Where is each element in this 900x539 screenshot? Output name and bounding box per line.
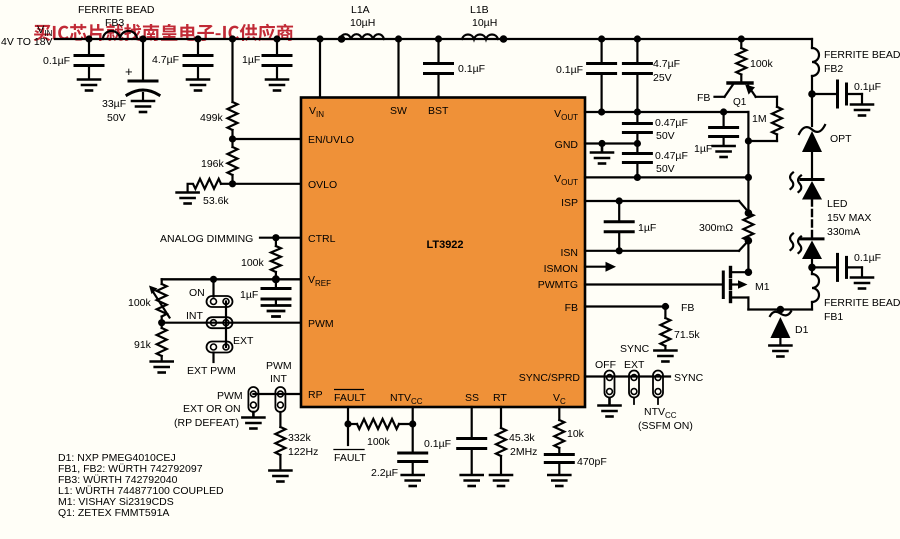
wire VIN pin drop (319, 39, 321, 98)
svg-text:(RP DEFEAT): (RP DEFEAT) (174, 417, 239, 429)
svg-text:4.7µF: 4.7µF (653, 58, 680, 70)
svg-text:71.5k: 71.5k (674, 329, 700, 341)
wire VOUT top line (585, 111, 748, 113)
ground RP-defeat jumper (242, 412, 264, 429)
svg-text:+: + (125, 64, 133, 79)
wire GND line (585, 142, 637, 144)
resistor R 499k (200, 39, 238, 139)
wire FAULT pin drop (347, 407, 349, 445)
svg-text:330mA: 330mA (827, 226, 860, 238)
capacitor 33uF 50V electrolytic (102, 39, 159, 124)
resistor R 53.6k (188, 179, 233, 207)
transistor Q1 PNP (715, 83, 778, 108)
junction dot OVLO (229, 180, 236, 187)
svg-text:10µH: 10µH (350, 17, 375, 29)
wire jumper ON riser (212, 279, 214, 296)
svg-text:FAULT: FAULT (334, 452, 366, 464)
svg-text:91k: 91k (134, 339, 152, 351)
wire ISP line (585, 201, 748, 212)
wire ISN line (585, 241, 748, 251)
svg-text:FERRITE BEAD: FERRITE BEAD (824, 49, 900, 61)
wire NTVCC pin drop (412, 407, 414, 452)
svg-text:196k: 196k (201, 158, 225, 170)
svg-text:4.7µF: 4.7µF (152, 54, 179, 66)
capacitor 4.7uF input (152, 39, 212, 79)
svg-text:LED: LED (827, 198, 848, 210)
svg-text:INT: INT (186, 310, 204, 322)
ground 1uF input (266, 80, 288, 91)
ground input cap (78, 80, 100, 91)
svg-text:0.1µF: 0.1µF (424, 438, 451, 450)
junction dot NTVCC/100k (409, 420, 416, 427)
svg-text:GND: GND (555, 139, 579, 151)
junction dot BST (435, 35, 442, 42)
svg-text:25V: 25V (653, 72, 672, 84)
svg-text:499k: 499k (200, 112, 224, 124)
svg-text:10k: 10k (567, 428, 585, 440)
resistor R 100k FAULT pullup (348, 419, 413, 448)
junction dot SW (395, 35, 402, 42)
svg-text:OFF: OFF (595, 359, 616, 371)
wire PWMTG line (585, 283, 722, 285)
junction dot 499k top (229, 35, 236, 42)
capacitor 0.1uF vout (556, 39, 616, 112)
ground SS (461, 475, 483, 486)
ground 4.7uF (187, 80, 209, 91)
svg-text:SW: SW (390, 105, 407, 117)
junction dot FAULT (344, 420, 351, 427)
jumper JP INT (186, 310, 233, 328)
svg-text:15V MAX: 15V MAX (827, 212, 871, 224)
svg-text:50V: 50V (656, 163, 675, 175)
svg-text:4V TO 18V: 4V TO 18V (1, 36, 53, 48)
svg-text:100k: 100k (241, 257, 265, 269)
ground OFF jumper (599, 398, 621, 417)
ground 0.1uF LED bottom (851, 278, 873, 289)
svg-text:300mΩ: 300mΩ (699, 222, 733, 234)
wire LED dashed (811, 200, 813, 239)
node watermark text (34, 24, 293, 41)
wire ISMON arrow (585, 262, 616, 272)
svg-text:SYNC: SYNC (674, 372, 704, 384)
ground 91k (151, 362, 173, 373)
transistor M1 MOSFET (723, 268, 769, 310)
capacitor 0.47uF 50V upper (623, 112, 688, 144)
svg-text:FB1: FB1 (824, 311, 843, 323)
svg-text:Q1: ZETEX FMMT591A: Q1: ZETEX FMMT591A (58, 507, 169, 519)
node NTVCC SSFM label (638, 406, 693, 432)
svg-text:FB3: FB3 (105, 17, 124, 29)
svg-text:45.3k: 45.3k (509, 432, 535, 444)
wire RP line (253, 393, 301, 395)
resistor R 10k VC (554, 407, 584, 453)
svg-text:53.6k: 53.6k (203, 195, 229, 207)
ground 1uF VREF (262, 306, 290, 317)
svg-text:FB2: FB2 (824, 63, 843, 75)
svg-text:122Hz: 122Hz (288, 446, 318, 458)
svg-text:332k: 332k (288, 432, 312, 444)
junction dot pot wiper (158, 319, 165, 326)
svg-text:(SSFM ON): (SSFM ON) (638, 420, 693, 432)
resistor R 332k 122Hz (275, 412, 318, 470)
junction dot EN/UVLO (229, 135, 236, 142)
ground 0.1uF LED top (851, 105, 873, 116)
svg-text:1µF: 1µF (242, 54, 260, 66)
jumper JP ON (189, 287, 233, 307)
inductor L1A 10uH (338, 4, 384, 43)
resistor R 71.5k (660, 307, 700, 351)
svg-text:ISP: ISP (561, 197, 578, 209)
svg-text:LT3922: LT3922 (426, 239, 463, 251)
LED 1 (790, 173, 823, 200)
svg-text:FERRITE BEAD: FERRITE BEAD (824, 297, 900, 309)
wire 300mohm to M1 drain (747, 241, 749, 273)
node ANALOG DIMMING / wire CTRL (160, 233, 301, 245)
junction dot VIN/0.1uF (85, 35, 92, 42)
svg-text:Q1: Q1 (733, 97, 747, 108)
op-amp U1 LT3922 IC block (301, 98, 585, 408)
capacitor 0.1uF BST (425, 39, 486, 98)
svg-text:100k: 100k (750, 58, 774, 70)
resistor R 300mohm (699, 213, 753, 241)
capacitor 0.47uF 50V lower (623, 144, 688, 178)
ferrite bead FB3 (78, 4, 155, 39)
node parts list (58, 452, 224, 519)
wire FB pin line (585, 305, 668, 307)
svg-text:0.1µF: 0.1µF (458, 63, 485, 75)
capacitor 1uF ISP-ISN (605, 201, 656, 251)
resistor R 1M (748, 107, 782, 141)
wire jumper bus (225, 302, 227, 348)
wire EXT PWM stub (212, 353, 214, 363)
svg-text:FB: FB (697, 92, 710, 104)
svg-text:EN/UVLO: EN/UVLO (308, 134, 354, 146)
svg-text:1µF: 1µF (638, 222, 656, 234)
ground 2.2uF (402, 475, 424, 486)
diode OPT (799, 94, 852, 178)
capacitor 2.2uF NTVCC (371, 453, 427, 479)
resistor R 196k (201, 139, 238, 184)
ferrite bead FB2 (812, 39, 900, 94)
svg-text:0.1µF: 0.1µF (43, 55, 70, 67)
capacitor 0.1uF input (43, 39, 103, 79)
svg-text:EXT PWM: EXT PWM (187, 365, 236, 377)
svg-text:PWM: PWM (266, 360, 292, 372)
ground 1uF vout (713, 146, 735, 157)
svg-text:D1: D1 (795, 324, 809, 336)
ground 332k (269, 471, 291, 482)
resistor R 100k Q1 base (736, 39, 773, 82)
capacitor 1uF VREF (240, 279, 290, 304)
resistor R 91k (134, 323, 167, 361)
junction dot 1uF (273, 35, 280, 42)
capacitor 470pF VC (545, 455, 606, 475)
ferrite bead FB1 (812, 267, 900, 323)
svg-text:SYNC: SYNC (620, 343, 650, 355)
svg-text:EXT: EXT (233, 335, 254, 347)
capacitor 4.7uF 25V vout (623, 39, 680, 112)
svg-text:SS: SS (465, 392, 479, 404)
wire OVLO (233, 183, 302, 185)
svg-text:L1A: L1A (351, 4, 370, 16)
wire EN/UVLO (233, 138, 302, 140)
svg-text:100k: 100k (128, 297, 152, 309)
ground GND pin (591, 144, 613, 164)
svg-text:470pF: 470pF (577, 456, 607, 468)
svg-text:EXT: EXT (624, 359, 645, 371)
svg-text:PWM: PWM (308, 318, 334, 330)
svg-text:0.47µF: 0.47µF (655, 117, 688, 129)
svg-text:FB: FB (565, 302, 578, 314)
junction dot 33uF (139, 35, 146, 42)
junction dot LED bottom (808, 264, 816, 272)
svg-text:0.47µF: 0.47µF (655, 150, 688, 162)
svg-text:FERRITE BEAD: FERRITE BEAD (78, 4, 155, 16)
jumper JP OFF (595, 359, 616, 398)
ground 53.6k (177, 193, 199, 204)
junction dot VREF/jumper (210, 276, 217, 283)
svg-text:PWM: PWM (217, 390, 243, 402)
wire VREF line (162, 278, 301, 280)
svg-text:50V: 50V (107, 112, 126, 124)
jumper JP SYNC-EXT (620, 343, 650, 404)
svg-text:FAULT: FAULT (334, 392, 366, 404)
svg-text:OPT: OPT (830, 133, 852, 145)
jumper JP SSFM (653, 371, 663, 405)
node LED rating label (827, 198, 871, 238)
node FAULT net label (334, 450, 366, 465)
inductor L1B 10uH (462, 4, 507, 43)
capacitor 1uF input (242, 39, 291, 79)
jumper JP EXT (207, 335, 255, 353)
node VIN input label (1, 24, 53, 48)
svg-text:ISMON: ISMON (544, 263, 578, 275)
svg-text:ANALOG DIMMING: ANALOG DIMMING (160, 233, 253, 245)
svg-text:CTRL: CTRL (308, 233, 336, 245)
svg-text:ON: ON (189, 287, 205, 299)
jumper JP RP-defeat (248, 387, 258, 412)
capacitor 1uF vout (694, 112, 738, 155)
ground D1 (769, 346, 791, 357)
svg-text:50V: 50V (656, 130, 675, 142)
svg-text:33µF: 33µF (102, 98, 126, 110)
svg-text:RT: RT (493, 392, 507, 404)
capacitor 0.1uF LED top (812, 81, 881, 107)
svg-text:2MHz: 2MHz (510, 446, 537, 458)
svg-text:1µF: 1µF (694, 143, 712, 155)
svg-text:OVLO: OVLO (308, 179, 337, 191)
svg-text:ISN: ISN (560, 247, 578, 259)
svg-text:RP: RP (308, 389, 323, 401)
svg-text:1µF: 1µF (240, 289, 258, 301)
svg-text:SYNC/SPRD: SYNC/SPRD (519, 372, 581, 384)
svg-text:0.1µF: 0.1µF (854, 81, 881, 93)
svg-text:0.1µF: 0.1µF (854, 252, 881, 264)
svg-text:100k: 100k (367, 436, 391, 448)
wire VOUT second line (585, 176, 748, 178)
svg-text:0.1µF: 0.1µF (556, 64, 583, 76)
svg-text:M1: M1 (755, 281, 770, 293)
wire SW pin drop (397, 39, 399, 98)
svg-text:2.2µF: 2.2µF (371, 467, 398, 479)
resistor R 45.3k RT (496, 407, 537, 475)
junction dot VREF/100k (272, 275, 280, 283)
capacitor 0.1uF LED bottom (812, 252, 881, 280)
jumper JP PWM-INT (266, 360, 292, 412)
diode D1 (770, 312, 809, 346)
wire VOUT vertical bus (747, 112, 749, 213)
ground RT (490, 475, 512, 486)
svg-text:INT: INT (270, 373, 288, 385)
resistor R 100k CTRL-VREF (241, 238, 281, 280)
svg-text:10µH: 10µH (472, 17, 497, 29)
svg-text:BST: BST (428, 105, 449, 117)
svg-text:PWMTG: PWMTG (538, 279, 578, 291)
svg-text:FB: FB (681, 302, 694, 314)
wire VIN top rail (55, 38, 812, 40)
potentiometer 100k (128, 279, 170, 322)
node PWM EXT OR ON label (174, 390, 243, 429)
wire SYNC/SPRD line (585, 375, 670, 377)
wire PWM line (162, 322, 301, 324)
svg-text:L1B: L1B (470, 4, 489, 16)
ground 71.5k (654, 351, 676, 362)
ground 33uF (132, 101, 154, 112)
svg-text:1M: 1M (752, 113, 767, 125)
junction dot 4.7uF (194, 35, 201, 42)
svg-text:EXT OR ON: EXT OR ON (183, 403, 241, 415)
wire M1 source to FB1 (748, 308, 812, 310)
junction dot FB2 bottom (808, 90, 816, 98)
capacitor 0.1uF SS (424, 407, 486, 475)
junction dot VIN drop (316, 35, 323, 42)
ground VC (548, 475, 570, 486)
LED 2 (790, 234, 823, 268)
